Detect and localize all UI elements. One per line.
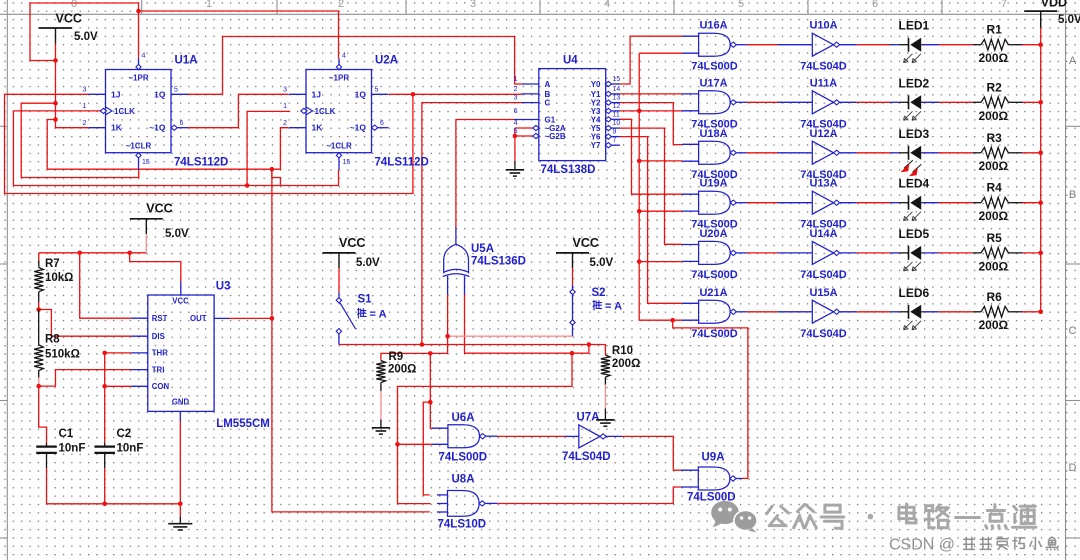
svg-text:U5A: U5A: [471, 243, 494, 255]
wire U4 G2A: [515, 127, 533, 129]
svg-text:74LS04D: 74LS04D: [800, 61, 847, 73]
svg-text:0: 0: [71, 0, 77, 10]
svg-text:74LS00D: 74LS00D: [439, 452, 488, 464]
svg-text:U17A: U17A: [699, 77, 727, 89]
wire branch to U2A-1K: [47, 120, 288, 170]
wire to U3 RST: [80, 253, 131, 318]
wire to U3 TRI: [39, 370, 131, 387]
wire VCC top loop to U1A pin4: [30, 3, 139, 61]
wire Y2 to U18A: [620, 103, 682, 145]
wire resistor to VDD bus: [1023, 252, 1041, 254]
svg-text:S1: S1: [358, 294, 373, 306]
junction: [411, 92, 416, 97]
svg-text:U11A: U11A: [810, 77, 838, 89]
resistor R2 200: [973, 97, 1023, 108]
svg-text:U18A: U18A: [699, 128, 727, 140]
svg-text:5.0V: 5.0V: [165, 228, 189, 240]
svg-text:= A: = A: [370, 309, 387, 321]
svg-text:1J: 1J: [111, 89, 121, 99]
svg-text:4: 4: [604, 0, 610, 10]
wire gate to inverter: [747, 311, 778, 313]
svg-text:CON: CON: [152, 382, 170, 391]
wire U4 G2B: [515, 135, 533, 137]
nand gate U19A 74LS00D: [682, 178, 747, 231]
svg-text:15: 15: [613, 76, 621, 83]
wire resistor to VDD bus: [1023, 152, 1041, 154]
junction: [36, 307, 41, 312]
svg-text:C2: C2: [117, 428, 132, 440]
wire jog to XOR right net: [572, 345, 589, 354]
ground (U3): [179, 517, 181, 524]
junction: [77, 251, 82, 256]
svg-text:U16A: U16A: [699, 20, 727, 32]
svg-text:~1CLR: ~1CLR: [126, 141, 152, 150]
svg-text:1J: 1J: [312, 89, 322, 99]
wire rail to U20A in2: [639, 261, 682, 263]
wire VCC rail at U3: [39, 252, 147, 254]
svg-text:U12A: U12A: [809, 128, 837, 140]
svg-text:R10: R10: [612, 345, 633, 357]
junction: [637, 109, 642, 114]
wire U6A out to U7A: [498, 435, 566, 437]
svg-text:5.0V: 5.0V: [590, 257, 614, 269]
wire C1/C2 ground line: [47, 468, 181, 504]
wire R10 lower lead: [604, 385, 606, 409]
svg-text:LM555CM: LM555CM: [216, 418, 270, 430]
junction: [1038, 151, 1043, 156]
wire to U3 CON: [105, 385, 131, 387]
junction: [1038, 100, 1043, 105]
wire resistor to VDD bus: [1023, 101, 1041, 103]
svg-text:~1Q: ~1Q: [350, 123, 367, 133]
svg-text:~1CLR: ~1CLR: [326, 141, 352, 150]
svg-text:2: 2: [283, 120, 287, 127]
wire U8A out to U9A in2: [497, 487, 681, 504]
resistor R6 200: [973, 306, 1023, 317]
svg-text:3: 3: [283, 87, 287, 94]
svg-text:1: 1: [206, 0, 212, 10]
led LED1: [890, 38, 939, 63]
junction: [102, 384, 107, 389]
svg-text:7: 7: [613, 137, 617, 144]
svg-text:9: 9: [613, 129, 617, 136]
xor gate U5A 74LS136D: [443, 228, 470, 295]
wire to U3 VCC pin: [130, 253, 181, 282]
svg-text:VCC: VCC: [146, 202, 172, 216]
capacitor C2 10nF: [94, 428, 143, 468]
svg-text:200Ω: 200Ω: [979, 209, 1009, 223]
wire S2 line to XOR left leg: [448, 335, 573, 337]
resistor R9 200: [376, 361, 385, 383]
led LED6: [890, 305, 939, 330]
svg-text:1CLK: 1CLK: [315, 107, 336, 116]
flip-flop U1A 74LS112D: [83, 53, 188, 170]
wire XOR left leg upper: [447, 294, 449, 336]
junction: [513, 134, 518, 139]
nand gate U21A 74LS00D: [682, 287, 747, 340]
svg-text:74LS00D: 74LS00D: [691, 328, 738, 340]
wire Y4 to U19A: [620, 119, 682, 194]
wire S2 VCC stem: [572, 268, 574, 286]
svg-text:1: 1: [83, 103, 87, 110]
svg-text:R9: R9: [389, 351, 404, 363]
wire inverter to LED: [857, 252, 890, 254]
wire 555 OUT rail to U8A pin3: [272, 169, 430, 512]
wire R7 top lead: [38, 253, 40, 261]
wire inverter to LED: [857, 202, 890, 204]
svg-text:S2: S2: [592, 287, 606, 299]
svg-text:C: C: [545, 99, 551, 108]
wire U9A-out net rail: [639, 53, 682, 320]
wire VCC feed to U1A-1K: [56, 44, 89, 128]
svg-text:Y1: Y1: [591, 90, 601, 99]
junction: [36, 384, 41, 389]
junction: [53, 58, 58, 63]
junction: [127, 251, 132, 256]
svg-text:U2A: U2A: [375, 55, 398, 67]
wire gate to inverter: [747, 202, 778, 204]
wire rail to U18A in2: [639, 160, 682, 162]
svg-text:C: C: [1069, 325, 1077, 337]
svg-text:200Ω: 200Ω: [979, 159, 1009, 173]
svg-text:6: 6: [872, 0, 878, 10]
svg-text:5.0V: 5.0V: [74, 31, 98, 43]
svg-text:U8A: U8A: [452, 474, 475, 486]
wire VCC stem: [145, 234, 147, 253]
svg-text:~1PR: ~1PR: [128, 74, 148, 83]
wire C2 bottom lead: [104, 468, 106, 504]
junction: [637, 159, 642, 164]
junction: [1038, 42, 1043, 47]
svg-text:10nF: 10nF: [117, 443, 144, 455]
svg-text:510kΩ: 510kΩ: [45, 349, 80, 361]
wire U7A out to U9A in1: [622, 436, 681, 470]
wire S1 VCC stem: [338, 268, 340, 293]
svg-text:74LS04D: 74LS04D: [562, 451, 611, 463]
wire Y1 to U17A: [620, 93, 682, 95]
wire to U3 DIS: [39, 310, 131, 337]
svg-text:2: 2: [83, 120, 87, 127]
wire LED to resistor: [939, 311, 973, 313]
svg-text:15: 15: [142, 159, 150, 166]
junction: [420, 342, 425, 347]
svg-text:U3: U3: [216, 281, 231, 293]
svg-text:1: 1: [514, 76, 518, 83]
svg-text:10: 10: [613, 120, 621, 127]
junction: [1038, 251, 1043, 256]
junction: [270, 167, 275, 172]
svg-text:LED6: LED6: [899, 286, 930, 300]
wire Y0 to U16A: [620, 36, 682, 84]
svg-text:2: 2: [514, 86, 518, 93]
capacitor C1 10nF: [36, 428, 85, 468]
svg-text:13: 13: [613, 95, 621, 102]
wire U2A-1Q to U4-B: [389, 93, 522, 95]
svg-text:6: 6: [180, 120, 184, 127]
svg-text:~1PR: ~1PR: [329, 74, 349, 83]
svg-text:74LS138D: 74LS138D: [541, 164, 596, 176]
wire clock line U1A-CLK / U2A pin15: [13, 111, 338, 186]
wire U3 GND stem: [179, 420, 181, 517]
inverter U11A 74LS04D: [778, 77, 857, 130]
svg-text:5: 5: [738, 0, 744, 10]
svg-text:5: 5: [514, 128, 518, 135]
wire gate to inverter: [747, 101, 778, 103]
junction: [670, 318, 675, 323]
svg-text:74LS00D: 74LS00D: [691, 61, 738, 73]
inverter U10A 74LS04D: [778, 20, 857, 73]
wire to U6A-in2/U8A-in2: [398, 353, 573, 503]
svg-text:U21A: U21A: [699, 287, 727, 299]
wire LED to resistor: [939, 101, 973, 103]
wire inverter to LED: [857, 101, 890, 103]
svg-text:U6A: U6A: [452, 412, 475, 424]
svg-text:U20A: U20A: [699, 228, 727, 240]
wire U6A in2 stub: [398, 443, 432, 445]
junction: [53, 117, 58, 122]
svg-text:VDD: VDD: [1041, 0, 1067, 10]
svg-text:1K: 1K: [111, 123, 123, 133]
svg-text:VCC: VCC: [172, 297, 189, 306]
svg-text:LED2: LED2: [899, 76, 930, 90]
svg-text:RST: RST: [152, 314, 168, 323]
svg-text:LED3: LED3: [899, 127, 930, 141]
junction: [102, 502, 107, 507]
svg-text:200Ω: 200Ω: [612, 358, 640, 370]
junction: [637, 209, 642, 214]
wire XOR left net to R9: [381, 336, 448, 360]
led LED4: [890, 196, 939, 221]
svg-text:R3: R3: [987, 131, 1003, 145]
svg-text:~G2B: ~G2B: [545, 132, 566, 141]
junction: [178, 502, 183, 507]
watermark wechat icon: [711, 501, 757, 533]
svg-text:200Ω: 200Ω: [979, 109, 1009, 123]
svg-text:74LS112D: 74LS112D: [174, 157, 228, 169]
wire LED to resistor: [939, 44, 973, 46]
svg-text:4: 4: [514, 120, 518, 127]
wire S1 line to U4-C: [422, 103, 522, 345]
resistor R10 200: [601, 355, 610, 377]
wire U5A out to U4-G1: [456, 120, 514, 228]
svg-text:4: 4: [342, 53, 346, 60]
nand gate U20A 74LS00D: [682, 228, 747, 281]
svg-text:CSDN @: CSDN @: [889, 537, 955, 554]
svg-text:U14A: U14A: [809, 228, 837, 240]
resistor R7 10k: [38, 261, 40, 268]
svg-text:15: 15: [343, 159, 351, 166]
wire gate to inverter: [747, 152, 778, 154]
wire to U6A in1: [430, 353, 432, 428]
svg-text:1Q: 1Q: [154, 89, 166, 99]
svg-text:R7: R7: [45, 258, 60, 270]
resistor R8 510k: [38, 310, 40, 345]
svg-text:3: 3: [83, 87, 87, 94]
svg-text:200Ω: 200Ω: [388, 364, 416, 376]
wire to U2A pin4: [139, 11, 339, 59]
svg-text:5: 5: [375, 87, 379, 94]
svg-text:U9A: U9A: [702, 452, 725, 464]
wire gate to inverter: [747, 44, 778, 46]
svg-text:3: 3: [514, 95, 518, 102]
svg-text:5: 5: [174, 87, 178, 94]
inverter U13A 74LS04D: [778, 178, 857, 231]
svg-text:11: 11: [613, 111, 620, 118]
junction: [587, 342, 592, 347]
wire to U16A in2: [639, 52, 682, 54]
svg-text:THR: THR: [152, 349, 168, 358]
wire U1A-1J to U2A-1Q loop: [5, 94, 413, 193]
svg-text:74LS00D: 74LS00D: [691, 269, 738, 281]
wire inverter to LED: [857, 44, 890, 46]
svg-text:5.0V: 5.0V: [1058, 14, 1080, 26]
resistor R1 200: [973, 39, 1023, 50]
nand gate U17A 74LS00D: [682, 77, 747, 130]
nand gate U9A 74LS00D: [681, 467, 742, 490]
junction: [445, 334, 450, 339]
label S2 key = A: [593, 301, 595, 303]
svg-text:2: 2: [338, 0, 344, 10]
svg-text:4: 4: [142, 53, 146, 60]
svg-text:Y7: Y7: [591, 141, 601, 150]
junction: [428, 351, 433, 356]
svg-text:C1: C1: [59, 428, 74, 440]
svg-text:R1: R1: [987, 23, 1003, 37]
led LED3: [890, 146, 939, 176]
svg-text:R8: R8: [45, 334, 60, 346]
svg-text:LED1: LED1: [899, 19, 930, 33]
junction: [570, 351, 575, 356]
svg-text:U10A: U10A: [809, 20, 837, 32]
svg-text:10nF: 10nF: [59, 443, 86, 455]
svg-text:1K: 1K: [312, 123, 324, 133]
svg-text:7: 7: [1001, 0, 1007, 10]
junction: [395, 442, 400, 447]
wire R9 lower lead: [380, 391, 382, 420]
wire G2 ground stem: [514, 128, 516, 161]
led LED2: [890, 95, 939, 120]
wire branch to U1A pin15: [21, 103, 139, 177]
svg-text:D: D: [1069, 462, 1077, 474]
svg-text:6: 6: [380, 120, 384, 127]
svg-text:U13A: U13A: [809, 178, 837, 190]
svg-text:U15A: U15A: [809, 287, 837, 299]
svg-text:3: 3: [470, 0, 476, 10]
svg-text:U4: U4: [563, 55, 578, 67]
inverter U12A 74LS04D: [778, 128, 857, 181]
resistor R3 200: [973, 147, 1023, 158]
svg-text:74LS04D: 74LS04D: [800, 328, 847, 340]
svg-text:200Ω: 200Ω: [979, 259, 1009, 273]
svg-text:74LS04D: 74LS04D: [800, 269, 847, 281]
svg-text:14: 14: [613, 86, 621, 93]
svg-text:VCC: VCC: [56, 12, 82, 26]
svg-text:~1Q: ~1Q: [149, 123, 166, 133]
svg-text:B: B: [545, 90, 551, 99]
resistor R5 200: [973, 248, 1023, 259]
svg-text:10kΩ: 10kΩ: [45, 272, 73, 284]
svg-text:1CLK: 1CLK: [114, 107, 135, 116]
timer U3 LM555CM: [131, 282, 229, 421]
svg-text:TRI: TRI: [152, 365, 165, 374]
svg-text:1Q: 1Q: [355, 89, 367, 99]
switch S1 (open), key = A: [336, 293, 355, 345]
flip-flop U2A 74LS112D: [283, 53, 388, 170]
led LED5: [890, 246, 939, 271]
svg-text:74LS10D: 74LS10D: [438, 519, 487, 531]
svg-text:U1A: U1A: [175, 55, 198, 67]
junction: [245, 183, 250, 188]
inverter U14A 74LS04D: [778, 228, 857, 281]
junction: [637, 259, 642, 264]
svg-text:DIS: DIS: [152, 332, 165, 341]
svg-text:VCC: VCC: [573, 236, 599, 250]
wire U3 OUT: [229, 317, 272, 319]
svg-text:= A: = A: [605, 301, 622, 313]
resistor R4 200: [973, 197, 1023, 208]
svg-text:LED5: LED5: [899, 227, 930, 241]
watermark text 公众号 · 电路一点通: [767, 506, 772, 514]
switch S2 (closed), key = A: [570, 286, 575, 337]
wire Y5 to U20A: [620, 128, 682, 244]
inverter U7A 74LS04D: [565, 425, 622, 448]
wire resistor to VDD bus: [1023, 44, 1041, 46]
svg-text:R5: R5: [987, 231, 1003, 245]
wire U1A-~1Q to U2A-1J: [188, 94, 289, 127]
svg-text:A: A: [1069, 55, 1077, 67]
nand gate U8A 74LS10D (3-input): [437, 491, 497, 517]
svg-text:U7A: U7A: [577, 412, 600, 424]
label S1 key = A: [358, 309, 360, 311]
nand gate U18A 74LS00D: [682, 128, 747, 181]
wire resistor to VDD bus: [1023, 311, 1041, 313]
junction: [428, 400, 433, 405]
nand gate U6A 74LS00D: [432, 425, 498, 448]
wire rail to U19A in2: [639, 210, 682, 212]
svg-text:R4: R4: [987, 181, 1003, 195]
nand gate U16A 74LS00D: [682, 20, 747, 73]
wire XOR right leg: [465, 294, 573, 353]
inverter U15A 74LS04D: [778, 287, 857, 340]
svg-text:6: 6: [514, 108, 518, 115]
junction: [102, 351, 107, 356]
svg-text:LED4: LED4: [899, 177, 930, 191]
wire inverter to LED: [857, 152, 890, 154]
svg-text:200Ω: 200Ω: [979, 51, 1009, 65]
wire resistor to VDD bus: [1023, 202, 1041, 204]
svg-text:VCC: VCC: [339, 236, 365, 250]
svg-text:GND: GND: [172, 398, 190, 407]
junction: [1038, 310, 1043, 315]
wire Y3 to U17A in2: [620, 110, 682, 112]
wire gate to inverter: [747, 252, 778, 254]
wire inverter to LED: [857, 311, 890, 313]
ground (U4 enable): [514, 161, 516, 170]
wire riser to U2A-CLK: [247, 111, 290, 185]
svg-text:Y0: Y0: [591, 80, 601, 89]
svg-text:74LS112D: 74LS112D: [375, 157, 429, 169]
wire VDD bus: [1040, 28, 1042, 312]
junction: [270, 316, 275, 321]
wire to C1 top: [39, 386, 47, 443]
svg-text:A: A: [545, 80, 551, 89]
wire jog at node: [272, 169, 281, 185]
wire R8 bottom: [38, 378, 40, 387]
junction: [1038, 200, 1043, 205]
wire U9A out riser: [673, 320, 748, 478]
wire C2 top lead: [104, 353, 106, 443]
wire to U8A in1: [423, 402, 430, 495]
